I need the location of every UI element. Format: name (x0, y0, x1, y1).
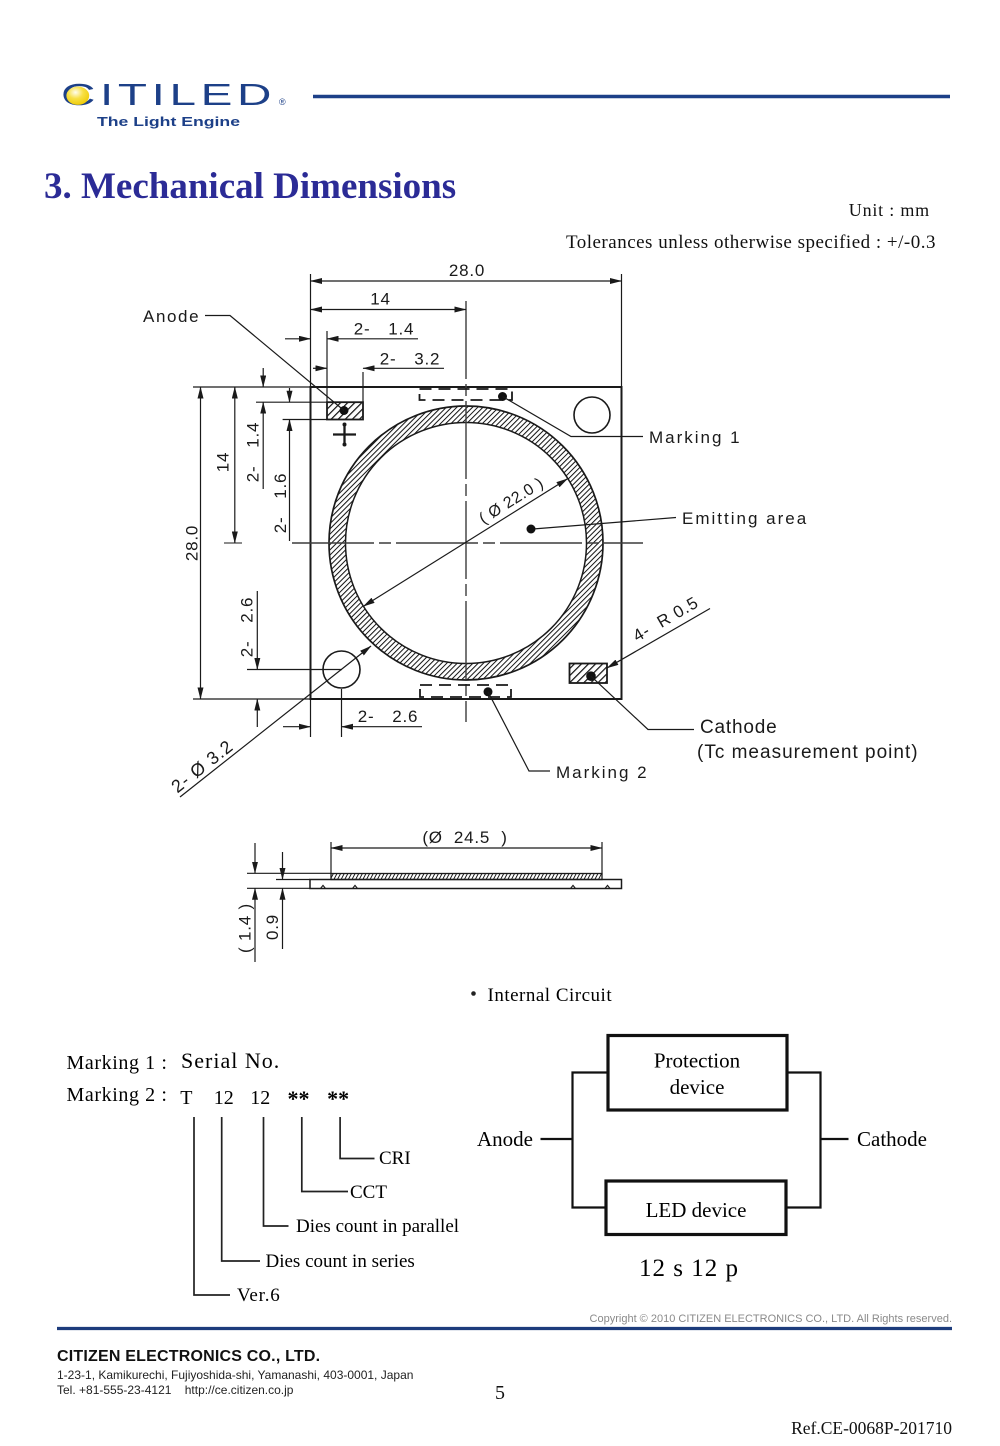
svg-text:Cathode: Cathode (700, 717, 777, 738)
svg-text:CITIZEN ELECTRONICS CO., LTD.: CITIZEN ELECTRONICS CO., LTD. (57, 1348, 320, 1365)
svg-text:0.9: 0.9 (263, 914, 282, 940)
svg-text:2- 2.6: 2- 2.6 (238, 597, 257, 658)
dim 2-1.4 top (285, 331, 418, 402)
dim 2-3.2 top (313, 368, 444, 402)
dim 2-2.6 left (247, 591, 342, 727)
svg-text:Tolerances unless otherwise sp: Tolerances unless otherwise specified : … (566, 232, 936, 253)
svg-text:( 1.4 ): ( 1.4 ) (236, 903, 255, 953)
callout Dies count in series (222, 1117, 260, 1261)
polarity + mark (333, 423, 356, 446)
svg-text:2- 1.4: 2- 1.4 (244, 422, 263, 483)
svg-text:Ver.6: Ver.6 (237, 1285, 281, 1306)
svg-text:CCT: CCT (350, 1182, 387, 1203)
anode pad (hatched) (327, 402, 363, 419)
callout CCT (302, 1117, 348, 1192)
svg-text:5: 5 (495, 1382, 505, 1404)
svg-text:Dies count in parallel: Dies count in parallel (296, 1216, 459, 1237)
dim 2-1.4 left (256, 368, 327, 489)
svg-text:Marking 1 :: Marking 1 : (67, 1052, 168, 1074)
emitting area inner circle (346, 423, 587, 664)
svg-text:12: 12 (250, 1087, 270, 1109)
side view terminal ticks (321, 885, 611, 888)
svg-text:14: 14 (370, 290, 391, 309)
dim (d22.0) diagonal (363, 479, 567, 607)
svg-text:Ref.CE-0068P-201710: Ref.CE-0068P-201710 (791, 1418, 952, 1438)
svg-text:12: 12 (214, 1087, 234, 1109)
svg-text:Copyright © 2010 CITIZEN ELECT: Copyright © 2010 CITIZEN ELECTRONICS CO.… (590, 1313, 952, 1325)
svg-text:(Ø 24.5 ): (Ø 24.5 ) (422, 828, 507, 847)
svg-text:**: ** (288, 1086, 310, 1111)
svg-text:Dies count in series: Dies count in series (266, 1251, 415, 1272)
wire left bus (541, 1073, 609, 1208)
svg-text:Anode: Anode (143, 307, 200, 326)
internal circuit bullet (471, 991, 476, 996)
svg-text:(Tc measurement point): (Tc measurement point) (697, 742, 919, 763)
marking 1 dot (498, 392, 507, 401)
vertical centerline (465, 301, 467, 722)
hole bottom-left (323, 651, 360, 688)
svg-text:2- 1.4: 2- 1.4 (354, 320, 415, 339)
svg-text:28.0: 28.0 (183, 525, 202, 561)
svg-text:Emitting area: Emitting area (682, 509, 808, 528)
dim 4-R0.5 leader (607, 609, 710, 669)
svg-text:Tel. +81-555-23-4121 http:/: Tel. +81-555-23-4121 http://ce.citizen.c… (57, 1383, 294, 1397)
logo yellow ball (66, 87, 89, 105)
svg-text:1-23-1, Kamikurechi, Fujiyoshi: 1-23-1, Kamikurechi, Fujiyoshida-shi, Ya… (57, 1368, 413, 1382)
svg-text:T: T (180, 1087, 192, 1109)
svg-text:2- 3.2: 2- 3.2 (380, 349, 441, 368)
svg-text:Unit : mm: Unit : mm (849, 200, 930, 220)
svg-text:Marking 1: Marking 1 (649, 428, 742, 447)
dim 2-2.6 bottom (283, 689, 422, 737)
dim (d24.5) (331, 842, 602, 874)
cathode pad (hatched) (570, 664, 608, 684)
callout Ver.6 (194, 1117, 230, 1295)
emitting area ring (hatched annulus) (329, 406, 603, 680)
side view emitting layer (hatched) (331, 874, 602, 880)
svg-text:28.0: 28.0 (449, 261, 485, 280)
svg-text:2- 2.6: 2- 2.6 (358, 707, 419, 726)
svg-text:3. Mechanical Dimensions: 3. Mechanical Dimensions (44, 166, 456, 207)
emitting area outer circle (329, 406, 603, 680)
dim 28.0 left (193, 387, 311, 699)
svg-text:Internal Circuit: Internal Circuit (488, 985, 613, 1006)
footer rule (57, 1327, 952, 1330)
LED device box (606, 1181, 786, 1235)
svg-text:Cathode: Cathode (857, 1127, 927, 1151)
dim 2-1.6 left (283, 388, 327, 541)
svg-text:**: ** (327, 1086, 349, 1111)
callout CRI (340, 1117, 374, 1159)
marking 1 dashed area (420, 389, 513, 400)
side view base plate (310, 880, 622, 889)
dim 0.9 side (276, 852, 310, 949)
svg-text:Marking 2: Marking 2 (556, 763, 649, 782)
hole top-right (574, 397, 610, 433)
dim 2-d3.2 diagonal leader (180, 646, 371, 797)
svg-text:Serial No.: Serial No. (181, 1048, 280, 1073)
package outline square (311, 387, 622, 699)
callout Dies count in parallel (264, 1117, 289, 1226)
dim 14 left (234, 387, 236, 543)
svg-text:Anode: Anode (477, 1127, 533, 1151)
dim (1.4) side (247, 843, 331, 962)
header rule (313, 95, 950, 99)
svg-text:The Light Engine: The Light Engine (97, 114, 240, 129)
svg-text:12 s 12 p: 12 s 12 p (639, 1255, 739, 1282)
dim 28.0 top (311, 274, 622, 387)
wire right bus (786, 1073, 849, 1208)
protection device box (608, 1036, 787, 1111)
svg-text:CRI: CRI (379, 1148, 411, 1169)
svg-text:Protection: Protection (654, 1049, 741, 1073)
svg-text:®: ® (279, 97, 286, 107)
svg-text:14: 14 (214, 452, 233, 473)
svg-text:CITILED: CITILED (61, 77, 276, 112)
svg-text:device: device (670, 1075, 725, 1099)
svg-text:2- Ø 3.2: 2- Ø 3.2 (167, 736, 237, 797)
marking 2 dot (484, 687, 493, 696)
marking 2 dashed area (420, 685, 511, 697)
horizontal centerline (292, 542, 643, 544)
svg-text:Marking 2 :: Marking 2 : (67, 1084, 168, 1106)
dim 14 top (311, 309, 467, 311)
anode pad dot (340, 406, 349, 415)
svg-text:( Ø 22.0 ): ( Ø 22.0 ) (476, 475, 547, 528)
svg-text:2- 1.6: 2- 1.6 (271, 473, 290, 534)
centerline tick at 14 dim (224, 542, 242, 544)
svg-text:LED device: LED device (646, 1198, 747, 1222)
cathode pad dot (586, 671, 596, 681)
